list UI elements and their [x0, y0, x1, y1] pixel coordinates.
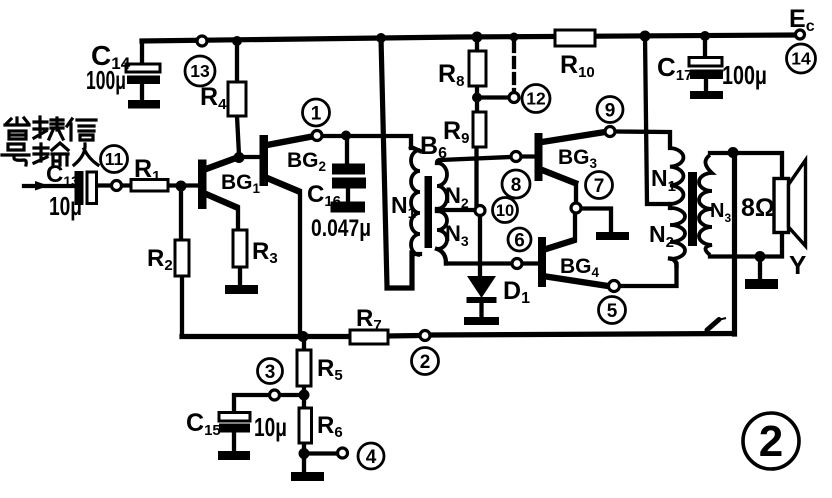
svg-text:8: 8 — [511, 175, 522, 196]
svg-text:100μ: 100μ — [722, 60, 767, 90]
svg-text:2: 2 — [420, 352, 431, 373]
svg-text:4: 4 — [366, 447, 377, 468]
svg-text:100μ: 100μ — [86, 65, 126, 95]
svg-text:2: 2 — [759, 417, 783, 466]
svg-text:12: 12 — [526, 89, 546, 109]
svg-text:Y: Y — [789, 250, 806, 280]
svg-text:10μ: 10μ — [254, 412, 287, 442]
svg-text:6: 6 — [514, 231, 525, 252]
svg-text:7: 7 — [594, 176, 605, 197]
svg-text:1: 1 — [311, 104, 322, 125]
svg-text:8Ω: 8Ω — [741, 194, 775, 222]
svg-text:11: 11 — [105, 149, 124, 169]
svg-text:5: 5 — [607, 301, 618, 322]
svg-text:13: 13 — [190, 61, 210, 81]
svg-text:3: 3 — [265, 362, 276, 383]
svg-text:10μ: 10μ — [49, 191, 82, 221]
svg-text:14: 14 — [791, 49, 811, 69]
svg-text:0.047μ: 0.047μ — [311, 215, 371, 242]
svg-text:10: 10 — [496, 202, 514, 220]
svg-text:9: 9 — [605, 101, 616, 122]
